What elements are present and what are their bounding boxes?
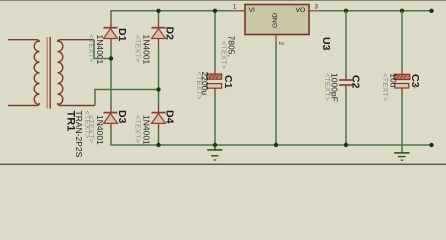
wire C2 bottom xyxy=(345,91,347,146)
svg-text:<TEXT>: <TEXT> xyxy=(220,41,229,70)
diode D1 xyxy=(104,20,118,46)
C1 positive plate xyxy=(207,74,222,79)
C3 positive plate xyxy=(394,74,410,79)
wire C1 to top rail xyxy=(214,11,216,68)
bottom window border xyxy=(0,164,446,165)
junction dot node B xyxy=(156,87,160,91)
wire secondary top to bridge node A xyxy=(94,40,111,59)
svg-text:D3: D3 xyxy=(116,110,128,124)
diode D2 xyxy=(152,20,166,46)
svg-text:C2: C2 xyxy=(350,75,362,89)
C1 bottom pin xyxy=(214,88,216,94)
TR1 core xyxy=(46,37,48,109)
junction dot U3 GND bottom xyxy=(274,143,278,147)
C2 bottom pin xyxy=(345,85,347,91)
capacitor C2 xyxy=(339,75,353,91)
svg-text:D1: D1 xyxy=(116,28,128,42)
diode D4 xyxy=(152,106,166,132)
junction dot D2 top xyxy=(156,9,160,13)
TR1 secondary winding xyxy=(58,41,63,105)
wire D2 anode to D4 cathode xyxy=(158,46,160,106)
C1 top pin xyxy=(214,68,216,74)
ground symbol right xyxy=(394,153,409,160)
C2 plates xyxy=(339,79,353,81)
svg-text:<TEXT>: <TEXT> xyxy=(87,115,96,144)
svg-text:U3: U3 xyxy=(320,37,332,51)
wire C3 top xyxy=(401,11,403,68)
junction dot C2 top xyxy=(344,9,348,13)
svg-text:<TEXT>: <TEXT> xyxy=(195,72,204,101)
svg-text:2: 2 xyxy=(277,42,284,46)
svg-text:<TEXT>: <TEXT> xyxy=(323,73,332,102)
wire D1 anode to D3 cathode xyxy=(110,46,112,106)
capacitor C1 xyxy=(207,68,222,94)
svg-text:D4: D4 xyxy=(164,110,176,124)
endpoint dot output rail xyxy=(429,9,433,13)
wire output rail xyxy=(319,10,432,12)
junction dot D4 bottom xyxy=(156,143,160,147)
ground symbol left xyxy=(207,145,222,160)
U3 pin 3 stub xyxy=(309,10,319,12)
svg-text:<TEXT>: <TEXT> xyxy=(134,35,143,64)
svg-text:3: 3 xyxy=(315,3,319,10)
voltage regulator U3 7805 xyxy=(245,5,309,35)
junction dot node A xyxy=(109,56,113,60)
wire bottom rail xyxy=(111,131,432,145)
TR1 primary top lead xyxy=(8,40,40,42)
U3 pin 2 stub xyxy=(275,35,277,42)
transformer TR1 xyxy=(8,37,95,109)
C3 bottom pin xyxy=(401,88,403,94)
wire C3 bottom to ground xyxy=(401,94,403,153)
top window border xyxy=(0,0,446,1)
TR1 secondary bottom lead xyxy=(58,103,96,106)
U3 pin 1 stub xyxy=(230,10,245,12)
wire D2 cathode to top rail xyxy=(158,11,160,20)
junction dot C2 bottom xyxy=(344,143,348,147)
wire top rail from D1 to U3 pin 1 xyxy=(111,11,230,20)
junction dot C1 bottom xyxy=(213,143,217,147)
wire secondary bottom to bridge node B xyxy=(95,90,159,106)
svg-text:<TEXT>: <TEXT> xyxy=(134,115,143,144)
svg-text:TRAN-2P2S: TRAN-2P2S xyxy=(74,111,84,158)
TR1 primary bottom lead xyxy=(8,103,40,106)
svg-text:1: 1 xyxy=(233,3,237,10)
C3 negative plate xyxy=(395,84,409,89)
C2 top pin xyxy=(345,75,347,81)
capacitor C3 xyxy=(394,68,410,94)
svg-text:+: + xyxy=(411,85,420,90)
svg-text:GND: GND xyxy=(272,13,279,28)
endpoint dot bottom rail xyxy=(429,143,433,147)
junction dot C1 top xyxy=(213,9,217,13)
TR1 secondary top lead xyxy=(58,40,95,42)
svg-text:VI: VI xyxy=(249,7,256,14)
wire U3 GND to bottom rail xyxy=(275,42,277,146)
C1 negative plate xyxy=(207,84,222,89)
svg-text:D2: D2 xyxy=(164,27,176,41)
C3 top pin xyxy=(401,68,403,74)
wire C2 top xyxy=(345,11,347,75)
wire C1 to bottom rail xyxy=(214,94,216,145)
svg-text:<TEXT>: <TEXT> xyxy=(381,73,390,102)
junction dot C3 top xyxy=(400,9,404,13)
wire D4 to bottom rail xyxy=(158,131,160,145)
TR1 primary winding xyxy=(34,41,39,105)
svg-text:C1: C1 xyxy=(222,75,234,89)
diode D3 xyxy=(104,106,118,132)
svg-text:VO: VO xyxy=(296,7,306,14)
